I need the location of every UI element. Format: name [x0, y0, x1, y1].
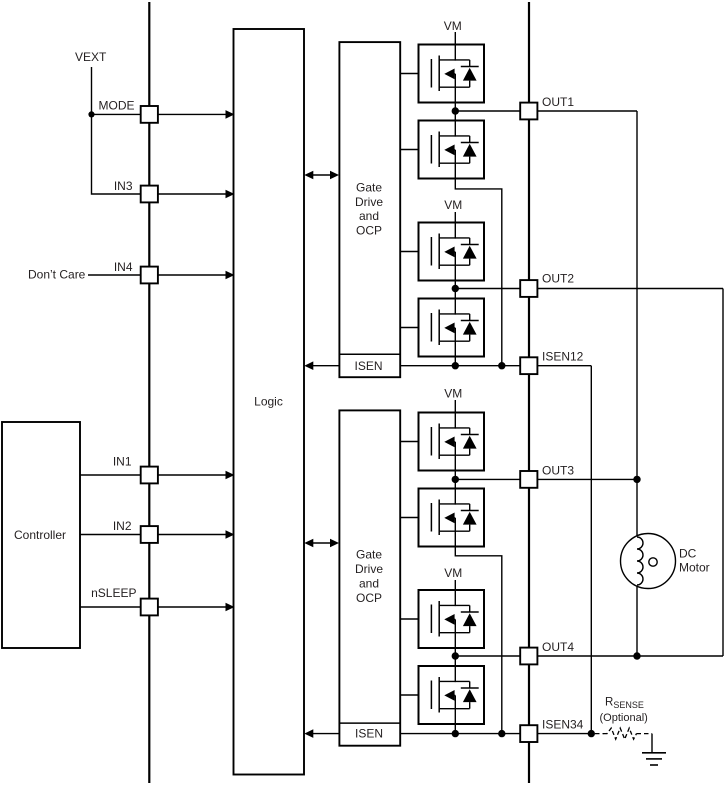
svg-text:and: and	[359, 577, 379, 591]
wire OUT1 to motor (right drop)	[636, 111, 638, 479]
gate drive and OCP block 2	[339, 410, 400, 745]
wire VM4 stub	[454, 580, 456, 591]
svg-text:ISEN12: ISEN12	[542, 349, 584, 363]
wire gate drive to Q7 gate	[400, 618, 432, 620]
wire VM2 stub	[454, 212, 456, 223]
pin nSLEEP	[141, 599, 158, 616]
svg-text:VM: VM	[444, 387, 462, 401]
wire OUT4 row	[455, 655, 723, 657]
left device boundary rail	[148, 2, 150, 783]
arrow IN1 to logic	[158, 471, 235, 480]
wire Q7 to Q8 (OUT4 node)	[454, 648, 456, 666]
pin OUT1	[520, 103, 537, 120]
wire motor bottom lead	[636, 586, 638, 657]
wire gate drive to Q6 gate	[400, 517, 432, 519]
svg-text:Drive: Drive	[355, 562, 383, 576]
arrow IN2 to logic	[158, 530, 235, 539]
wire controller to IN1	[80, 474, 141, 476]
junction Q5/Q6 OUT3	[452, 476, 459, 483]
wire gate drive to Q3 gate	[400, 251, 432, 253]
svg-text:Motor: Motor	[679, 561, 710, 575]
wire RSENSE to ground	[651, 734, 653, 753]
arrow ISEN2 to logic	[304, 729, 339, 738]
pin OUT2	[520, 280, 537, 297]
svg-text:ISEN: ISEN	[355, 726, 383, 740]
wire OUT1 row	[455, 110, 637, 112]
svg-text:Gate: Gate	[356, 548, 382, 562]
ground	[642, 753, 666, 765]
pin IN4	[141, 267, 158, 284]
wire motor top lead	[636, 479, 638, 537]
wire Q2 source to ISEN12 (jog)	[455, 179, 502, 366]
svg-text:OUT1: OUT1	[542, 95, 574, 109]
wire VM1 stub	[454, 32, 456, 45]
MOSFET Q5 high-side OUT3	[419, 413, 485, 471]
wire ISEN12 drop to ISEN34	[590, 366, 592, 734]
wire Don't Care to IN4	[88, 274, 141, 276]
svg-text:Controller: Controller	[14, 528, 66, 542]
svg-text:IN2: IN2	[113, 519, 132, 533]
wire Q5 to Q6 (OUT3 node)	[454, 471, 456, 489]
pin OUT4	[520, 648, 537, 665]
wire Q1 to Q2 (OUT1 node)	[454, 103, 456, 121]
arrow IN3 to logic	[158, 190, 235, 199]
MOSFET Q3 high-side OUT2	[419, 223, 485, 281]
svg-text:VM: VM	[444, 19, 462, 33]
arrow ISEN1 to logic	[304, 361, 339, 370]
gate drive and OCP block 1	[339, 42, 400, 377]
svg-text:OUT4: OUT4	[542, 640, 574, 654]
right device boundary rail	[528, 2, 530, 783]
wire Q8 source to ISEN34 row	[454, 724, 456, 734]
junction ISEN34 a	[452, 730, 459, 737]
svg-text:VM: VM	[444, 198, 462, 212]
svg-text:RSENSE: RSENSE	[605, 696, 644, 709]
svg-text:OUT3: OUT3	[542, 463, 574, 477]
arrow IN4 to logic	[158, 271, 235, 280]
wire OUT2 row	[455, 288, 723, 290]
MOSFET Q2 low-side OUT1	[419, 121, 485, 179]
svg-text:IN3: IN3	[114, 179, 133, 193]
resistor RSENSE (optional)	[595, 696, 652, 739]
wire gate drive to Q5 gate	[400, 441, 432, 443]
MOSFET Q6 low-side OUT3	[419, 489, 485, 547]
junction VEXT/MODE	[88, 111, 94, 117]
MOSFET Q4 low-side OUT2	[419, 299, 485, 357]
bidirectional arrow logic to gate drive 2	[304, 539, 339, 548]
svg-text:Don’t Care: Don’t Care	[28, 268, 86, 282]
junction Q7/Q8 OUT4	[452, 652, 459, 659]
bidirectional arrow logic to gate drive 1	[304, 171, 339, 180]
svg-text:MODE: MODE	[99, 98, 135, 112]
pin IN2	[141, 526, 158, 543]
junction Q1/Q2 OUT1	[452, 107, 459, 114]
pin MODE	[141, 106, 158, 123]
svg-text:DC: DC	[679, 547, 697, 561]
wire Q3 to Q4 (OUT2 node)	[454, 281, 456, 299]
wire controller to IN2	[80, 534, 141, 536]
arrow nSLEEP to logic	[158, 603, 235, 612]
svg-text:Drive: Drive	[355, 195, 383, 209]
svg-text:ISEN: ISEN	[354, 359, 382, 373]
junction ISEN34/RSENSE	[588, 730, 595, 737]
svg-text:ISEN34: ISEN34	[542, 718, 584, 732]
wire gate drive to Q2 gate	[400, 149, 432, 151]
logic block	[234, 29, 305, 775]
wire gate drive to Q1 gate	[400, 73, 432, 75]
MOSFET Q1 high-side OUT1	[419, 45, 485, 103]
pin ISEN12	[520, 357, 537, 374]
junction ISEN34 b	[498, 730, 505, 737]
svg-text:Logic: Logic	[254, 394, 283, 408]
wire ISEN12 row	[400, 365, 591, 367]
controller block	[2, 422, 80, 648]
svg-text:IN1: IN1	[113, 455, 132, 469]
wire OUT2 right wrap down	[722, 289, 724, 657]
svg-text:OCP: OCP	[356, 591, 382, 605]
svg-text:and: and	[359, 209, 379, 223]
svg-text:VM: VM	[444, 566, 462, 580]
pin IN3	[141, 186, 158, 203]
wire controller to nSLEEP	[80, 606, 141, 608]
pin ISEN34	[520, 725, 537, 742]
svg-text:IN4: IN4	[114, 260, 133, 274]
MOSFET Q8 low-side OUT4	[419, 666, 485, 724]
junction ISEN12 a	[452, 362, 459, 369]
MOSFET Q7 high-side OUT4	[419, 590, 485, 648]
svg-text:Gate: Gate	[356, 181, 382, 195]
svg-text:OUT2: OUT2	[542, 271, 574, 285]
junction Q3/Q4 OUT2	[452, 285, 459, 292]
pin IN1	[141, 467, 158, 484]
wire VEXT to MODE pin	[92, 113, 142, 115]
wire VEXT vertical to IN3	[92, 67, 142, 194]
DC motor M1	[621, 534, 710, 589]
wire gate drive to Q8 gate	[400, 694, 432, 696]
svg-text:OCP: OCP	[356, 223, 382, 237]
wire Q6 source to ISEN34 (jog)	[455, 547, 502, 734]
junction ISEN12 b	[498, 362, 505, 369]
junction OUT3/OUT1 motor top	[633, 476, 640, 483]
junction OUT4/OUT2 motor bottom	[633, 652, 640, 659]
pin OUT3	[520, 471, 537, 488]
wire gate drive to Q4 gate	[400, 327, 432, 329]
wire Q4 source to ISEN12 row	[454, 357, 456, 366]
arrow MODE to logic	[158, 110, 235, 119]
wire VM3 stub	[454, 400, 456, 413]
svg-text:(Optional): (Optional)	[600, 712, 648, 724]
svg-text:VEXT: VEXT	[75, 50, 107, 64]
wire ISEN34 row	[400, 733, 591, 735]
svg-text:nSLEEP: nSLEEP	[91, 586, 136, 600]
wire OUT3 row	[455, 478, 637, 480]
